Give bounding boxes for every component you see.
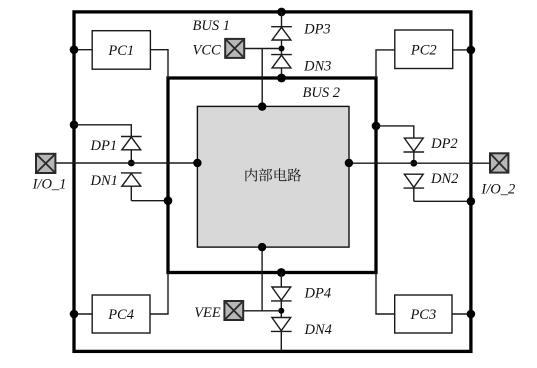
clamp PC1 box	[92, 31, 150, 69]
wire PC1 left to BUS1	[74, 49, 92, 51]
pad VCC	[225, 39, 244, 58]
wire PC3 right to BUS1	[452, 313, 471, 315]
svg-text:DN4: DN4	[304, 322, 332, 338]
wire DN2 down	[413, 188, 415, 201]
diode DP3	[271, 27, 292, 40]
wire PC2 right to BUS1	[453, 49, 471, 51]
pad VEE	[224, 301, 243, 320]
junction IO1-internal	[193, 159, 201, 167]
junction IO2-internal	[345, 159, 353, 167]
svg-text:VEE: VEE	[194, 305, 221, 321]
svg-text:DN3: DN3	[303, 59, 331, 75]
junction DP3-BUS1	[277, 8, 286, 17]
junction VCC node	[279, 46, 285, 52]
diode DN4	[271, 318, 292, 332]
svg-text:I/O_1: I/O_1	[32, 177, 67, 193]
junction PC4-BUS1	[70, 310, 79, 319]
svg-text:DP1: DP1	[90, 138, 118, 154]
svg-text:BUS 2: BUS 2	[303, 85, 340, 101]
wire DN1 down	[130, 186, 132, 201]
pad I/O_2	[490, 153, 508, 172]
svg-text:PC2: PC2	[410, 42, 437, 58]
wire I/O_1 pad to internal circuit	[55, 162, 197, 164]
diode DP1	[121, 137, 142, 150]
junction DP2-BUS2	[372, 122, 381, 131]
svg-text:I/O_2: I/O_2	[480, 182, 515, 198]
clamp PC2 box	[395, 30, 453, 69]
junction DN3-BUS2	[277, 74, 286, 83]
clamp PC3 box	[395, 295, 452, 333]
wire VCC pad to diode node	[244, 48, 281, 50]
wire VCC to internal circuit	[261, 49, 263, 107]
clamp PC4 box	[92, 295, 150, 333]
wire DP3 to DN3	[281, 40, 283, 55]
junction PC1-BUS1	[70, 45, 79, 54]
junction DP4-BUS2	[277, 268, 286, 277]
label 内部电路 (internal circuit)	[245, 168, 301, 181]
wire DP2 to IO2 line	[413, 152, 415, 163]
wire BUS1 to DP3	[281, 12, 283, 27]
wire BUS2 to DP4	[280, 273, 282, 288]
wire PC1 right to BUS2 corner	[150, 50, 168, 78]
wire PC3 left to BUS2 corner	[376, 273, 395, 315]
wire VEE to internal circuit	[261, 247, 263, 311]
svg-text:DN2: DN2	[430, 171, 458, 187]
wire PC4 right to BUS2 corner	[150, 273, 168, 315]
wire PC2 left to BUS2 corner	[376, 50, 395, 78]
junction DP1-BUS1	[70, 121, 79, 130]
internal circuit block	[197, 106, 349, 247]
junction PC2-BUS1	[467, 46, 476, 55]
junction VCC-internal	[258, 102, 266, 110]
bus BUS2 inner ring	[168, 78, 376, 273]
wire PC4 left to BUS1	[74, 313, 92, 315]
svg-text:PC1: PC1	[107, 43, 134, 59]
junction IO1 node	[128, 160, 135, 167]
wire I/O_2 pad to internal circuit	[349, 162, 490, 164]
junction DN2-BUS1	[467, 197, 476, 206]
junction VEE node	[278, 308, 284, 314]
junction IO2 node	[410, 160, 417, 167]
wire BUS1 to DP1	[74, 125, 131, 137]
junction PC3-BUS1	[467, 310, 476, 319]
junction DN1-BUS2	[164, 196, 173, 205]
svg-text:DP3: DP3	[303, 22, 331, 38]
wire DN2 to BUS1	[414, 200, 471, 202]
wire VEE pad to diode node	[243, 310, 281, 312]
svg-text:DP4: DP4	[304, 286, 332, 302]
bus BUS1 outer ring	[74, 12, 471, 352]
wire DN4 to BUS1	[280, 331, 282, 351]
diode DP4	[271, 287, 292, 301]
svg-text:PC3: PC3	[409, 307, 436, 323]
diode DN3	[271, 55, 292, 68]
wire BUS2 to DP2	[376, 126, 414, 138]
svg-text:DP2: DP2	[430, 136, 458, 152]
wire DP4 to DN4	[280, 301, 282, 318]
svg-text:PC4: PC4	[107, 307, 134, 323]
diode DP2	[404, 138, 425, 152]
pad I/O_1	[36, 154, 55, 173]
wire DP1 to IO1 line	[130, 150, 132, 163]
svg-text:VCC: VCC	[193, 43, 222, 59]
diode DN2	[404, 174, 425, 188]
junction VEE-internal	[258, 243, 266, 251]
wire DN1 to BUS2	[131, 200, 168, 202]
diode DN1	[121, 173, 142, 186]
svg-text:DN1: DN1	[90, 173, 118, 189]
wire DN3 to BUS2	[281, 68, 283, 78]
svg-text:BUS 1: BUS 1	[193, 18, 230, 34]
